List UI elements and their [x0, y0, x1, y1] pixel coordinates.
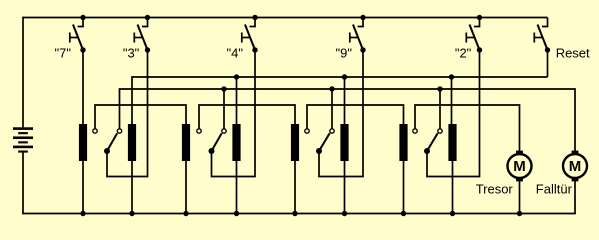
relay coil K3a — [291, 124, 299, 161]
svg-text:"4": "4" — [227, 46, 244, 61]
node: bus1 junction — [342, 74, 347, 79]
changeover contact K1: NO terminal — [93, 129, 97, 133]
node: bus2 junction — [221, 86, 226, 91]
push button S5 "2" — [466, 15, 482, 53]
node: bus2 junction — [329, 86, 334, 91]
wire: left rail (battery positive feed) — [22, 17, 24, 128]
relay coil K1b — [128, 124, 136, 161]
node: rail junction — [80, 211, 85, 216]
changeover contact K3: pole and arm — [316, 133, 330, 154]
node: rail junction at Tresor motor — [517, 211, 522, 216]
node: rail junction — [129, 211, 134, 216]
node: bus2 junction — [437, 86, 442, 91]
changeover contact K4: NC terminal — [438, 129, 442, 133]
changeover contact K2: NO terminal — [197, 129, 201, 133]
wire: coil K1b bottom to rail — [131, 161, 133, 214]
svg-text:"3": "3" — [123, 46, 140, 61]
wire: coil K3a bottom to rail — [294, 161, 296, 214]
wire: bus1 joining relay coils K1b,K2b,K3b,K4b tops (from Reset) — [132, 77, 548, 124]
wire: coil K2b bottom to rail — [236, 161, 238, 214]
wire: coil K1a bottom to rail — [82, 161, 84, 214]
changeover contact K3: NO terminal — [305, 129, 309, 133]
push button S3 "4" — [242, 15, 258, 53]
svg-text:"9": "9" — [336, 46, 353, 61]
wire: bus2 drop to contact terminal — [331, 89, 333, 129]
node: bus1 junction — [234, 74, 239, 79]
svg-text:Reset: Reset — [556, 46, 590, 61]
wire: contact K1 NO terminal to coil K2a top — [95, 105, 186, 129]
wire: bus1 drop to coil top — [236, 77, 238, 124]
node: rail junction — [342, 211, 347, 216]
node: rail junction — [292, 211, 297, 216]
changeover contact K2: pole and arm — [209, 133, 222, 154]
svg-text:Falltür: Falltür — [536, 182, 573, 197]
wire: motor M1 to bottom rail — [519, 181, 521, 214]
motor M2 (Falltür) — [563, 151, 587, 182]
wire: contact K3 NO terminal to coil K4a top — [307, 105, 404, 129]
push button S4 "9" — [350, 15, 366, 53]
changeover contact K3: NC terminal — [330, 129, 334, 133]
wire: Reset button to bus of relay coils K1b-K4b — [547, 50, 549, 77]
wire: left rail (battery negative to bottom rail) — [22, 153, 24, 214]
wire: bus2 drop to contact terminal — [439, 89, 441, 129]
node: rail junction — [183, 211, 188, 216]
wire: contact K4 NO terminal to Tresor motor M1 — [415, 105, 520, 151]
changeover contact K4: pole and arm — [424, 133, 438, 154]
svg-text:"2": "2" — [455, 46, 472, 61]
wire: bottom return rail — [22, 213, 576, 215]
relay coil K2a — [182, 124, 190, 161]
wire: coil K4a bottom to rail — [403, 161, 405, 214]
changeover contact K4: NO terminal — [413, 129, 417, 133]
wire: coil K3b bottom to rail — [344, 161, 346, 214]
node: rail junction — [401, 211, 406, 216]
push button S2 "3" — [134, 15, 150, 53]
push button S1 "7" — [70, 15, 86, 53]
wire: motor M2 to bottom rail — [574, 181, 576, 214]
svg-text:M: M — [513, 158, 526, 175]
wire: coil K2a bottom to rail — [185, 161, 187, 214]
relay coil K3b — [340, 124, 348, 161]
changeover contact K1: NC terminal — [117, 129, 121, 133]
motor M1 (Tresor) — [508, 151, 532, 182]
wire: bus2 joining NC contact terminals (to Falltür motor M2) — [120, 89, 576, 152]
wire: bus1 drop to coil top — [451, 77, 453, 124]
changeover contact K2: NC terminal — [222, 129, 226, 133]
wire: pole of contact K4 to next button — [427, 50, 480, 177]
wire: bus2 drop to contact terminal — [223, 89, 225, 129]
wire: pole of contact K1 to next button — [107, 50, 148, 177]
svg-text:M: M — [569, 158, 582, 175]
wire: coil K4b bottom to rail — [452, 161, 454, 214]
changeover contact K1: pole and arm — [104, 133, 117, 154]
node: rail junction — [234, 211, 239, 216]
wire: pole of contact K3 to next button — [319, 50, 363, 177]
wire: top supply rail — [23, 17, 548, 19]
relay coil K2b — [232, 124, 240, 161]
node: bus1 junction — [449, 74, 454, 79]
wire: button S1 to coil K1a top — [82, 50, 84, 124]
relay coil K1a — [79, 124, 87, 161]
battery B1 (3 cells) — [13, 127, 33, 152]
svg-text:Tresor: Tresor — [476, 182, 514, 197]
relay coil K4a — [399, 124, 407, 161]
relay coil K4b — [448, 124, 456, 161]
wire: bus1 drop to coil top — [344, 77, 346, 124]
node: rail junction — [450, 211, 455, 216]
wire: contact K2 NO terminal to coil K3a top — [199, 105, 295, 129]
svg-text:"7": "7" — [55, 46, 72, 61]
wire: pole of contact K2 to next button — [212, 50, 256, 177]
push button S6 Reset — [534, 18, 550, 53]
